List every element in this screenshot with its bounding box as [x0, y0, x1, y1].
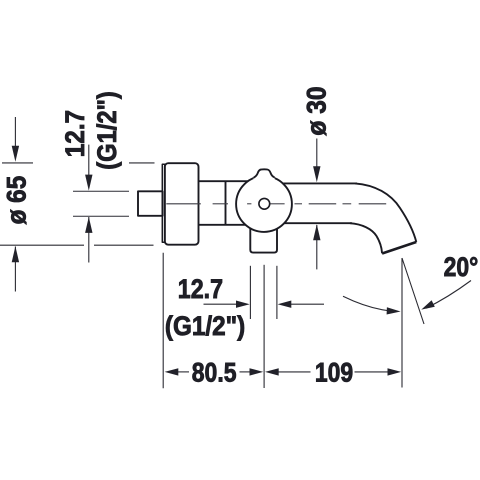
svg-text:80.5: 80.5 — [192, 358, 237, 388]
svg-text:12.7: 12.7 — [61, 110, 90, 157]
svg-text:ø 30: ø 30 — [303, 86, 332, 135]
svg-text:20°: 20° — [444, 252, 479, 282]
svg-text:(G1/2"): (G1/2") — [165, 312, 245, 341]
svg-text:12.7: 12.7 — [178, 274, 223, 304]
svg-text:ø 65: ø 65 — [2, 176, 31, 225]
svg-text:(G1/2"): (G1/2") — [92, 91, 122, 170]
svg-text:109: 109 — [315, 358, 353, 388]
